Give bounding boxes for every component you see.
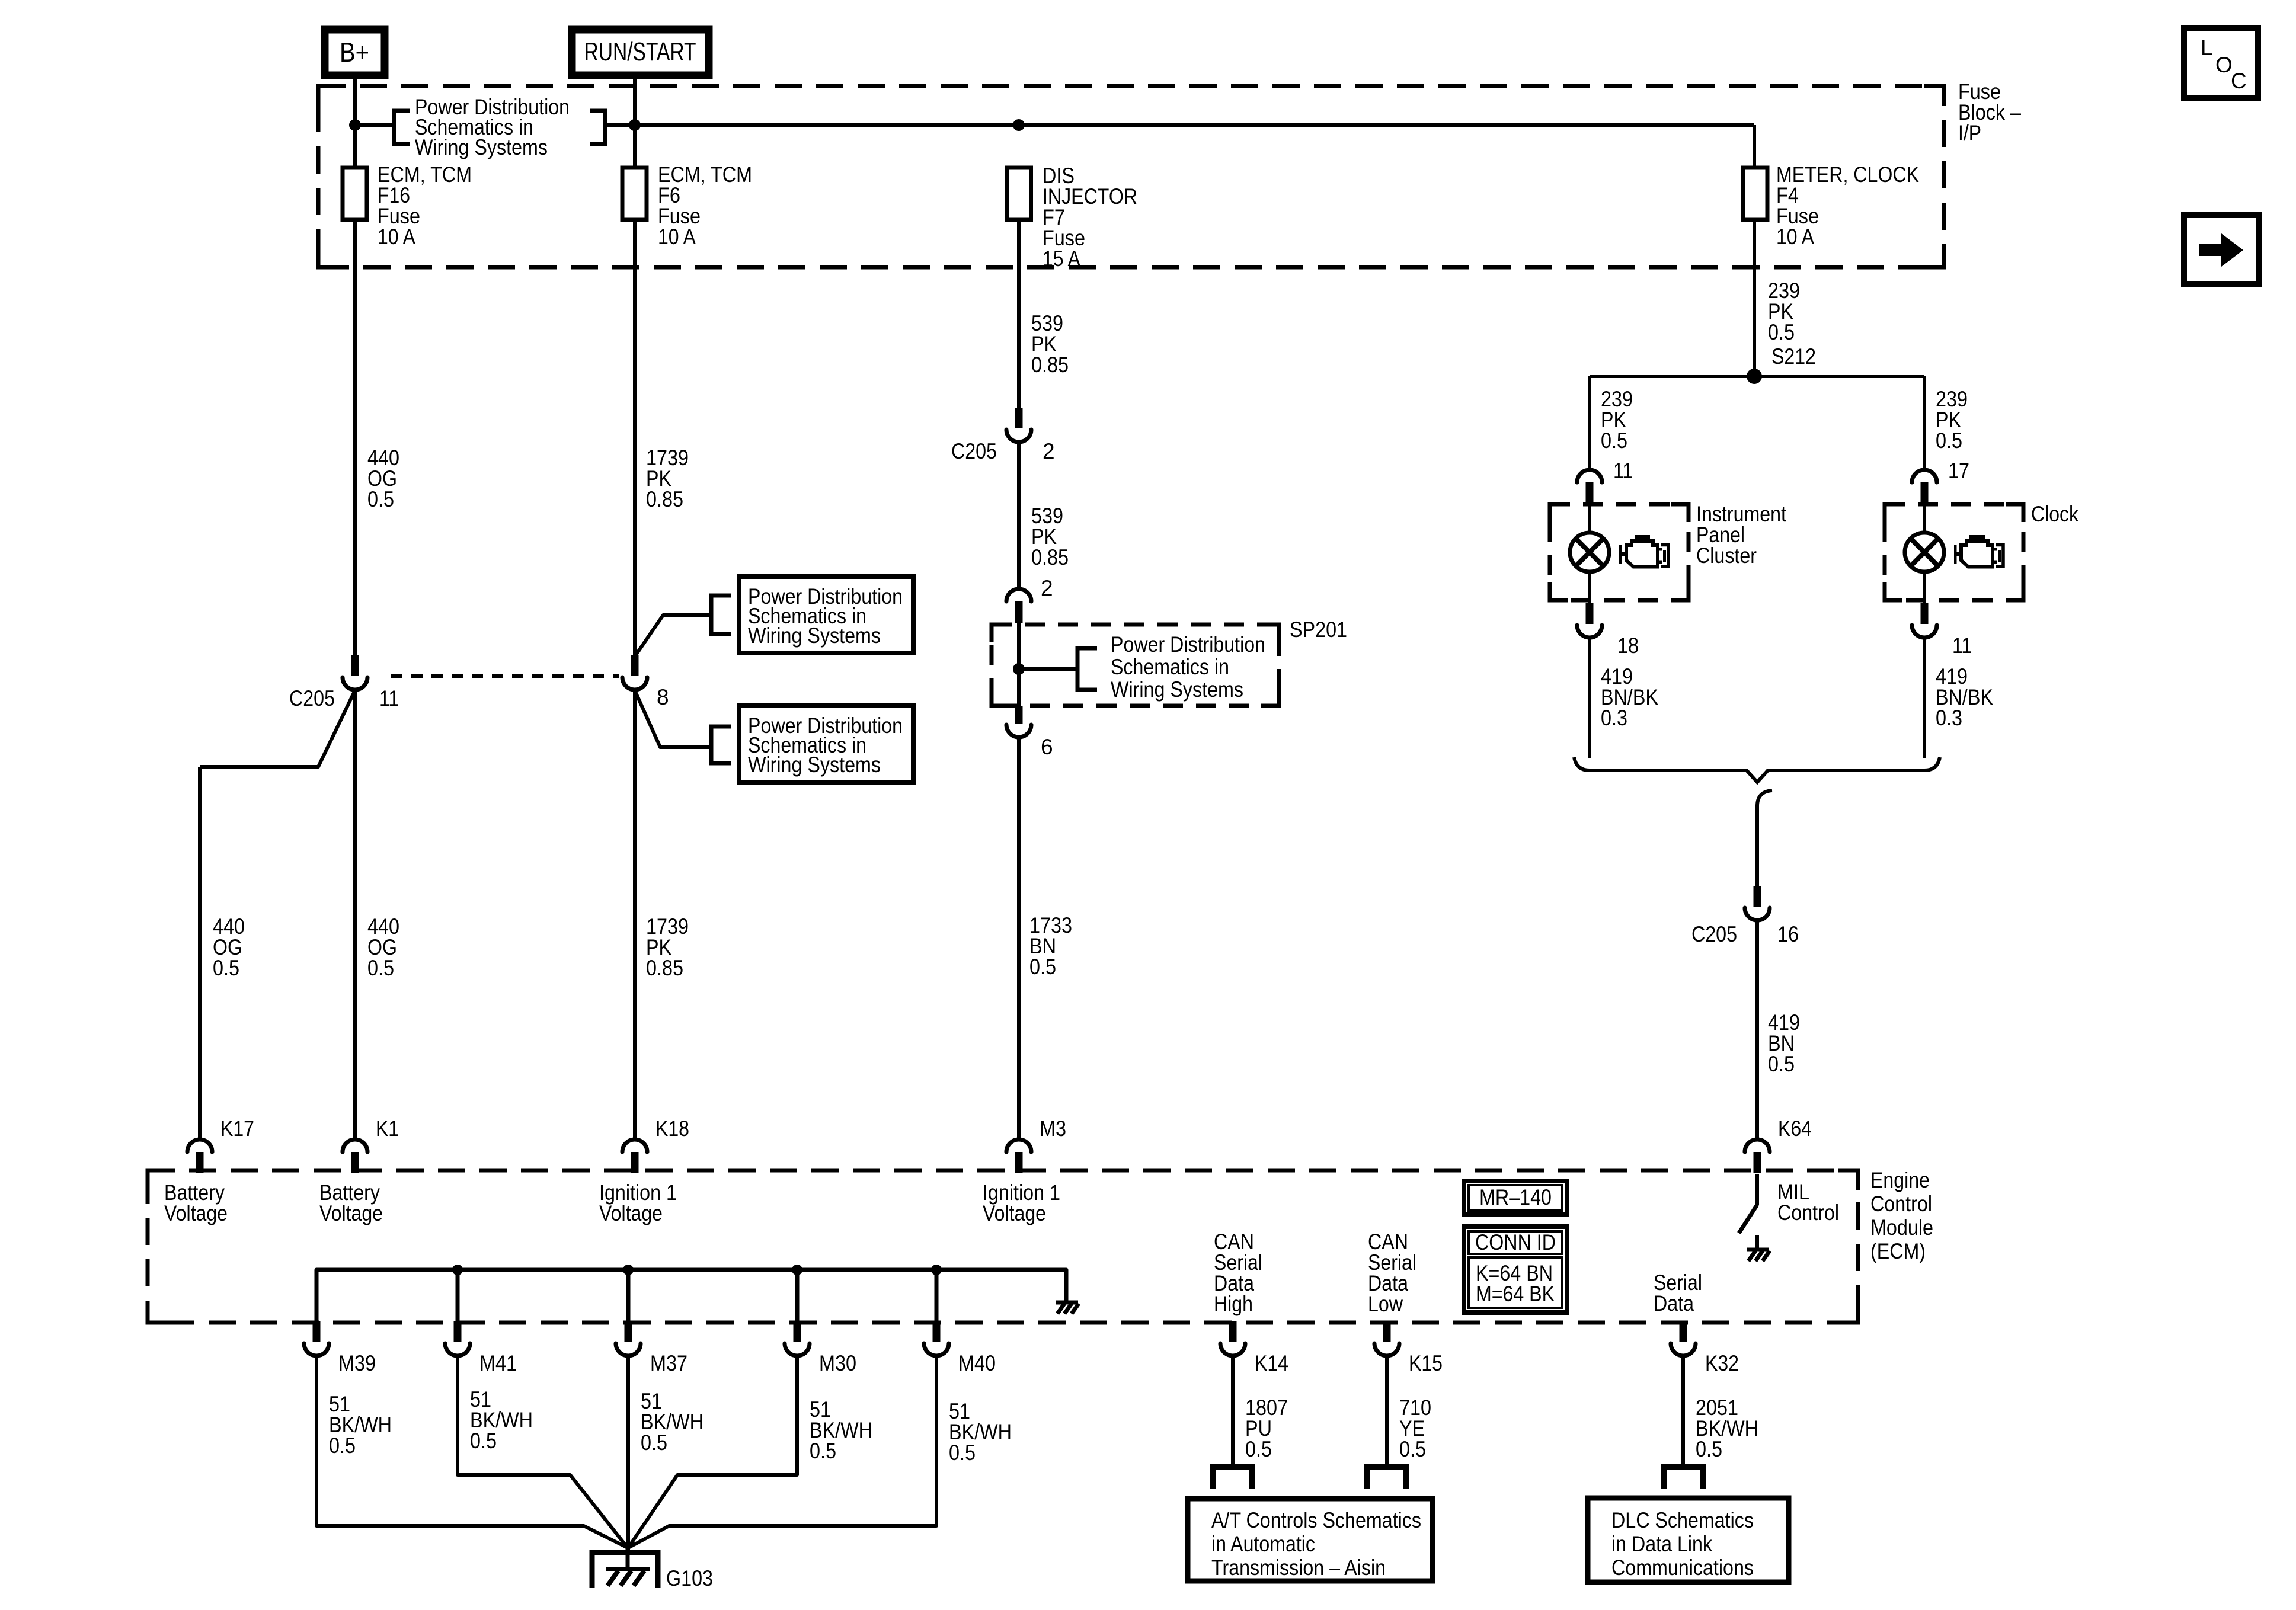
connector ECM pin M37 cup <box>616 1343 641 1356</box>
connector ECM pin K32 cup <box>1671 1343 1696 1356</box>
wire from lamp to cluster exit <box>1588 572 1591 605</box>
fuse F16 <box>343 168 367 220</box>
internal chassis ground (bus) <box>1056 1302 1079 1314</box>
wire 419 BN/BK left <box>1588 638 1591 758</box>
wire 419 BN to C205-16 <box>1755 805 1759 887</box>
ground G103 stem <box>626 1548 630 1569</box>
connector cluster exit pin 18 <box>1577 603 1602 638</box>
inner border of CONN ID header <box>1469 1231 1562 1254</box>
wire 239 PK right branch <box>1923 376 1926 469</box>
connector ECM pin K14 stub <box>1229 1321 1237 1342</box>
power feed box B+ <box>325 30 385 75</box>
connector ECM pin M40 cup <box>924 1343 949 1356</box>
connector ECM pin M41 cup <box>445 1343 470 1356</box>
connector ECM pin K1 <box>343 1140 367 1173</box>
wire 239 PK left branch <box>1588 376 1591 469</box>
svg-text:K14: K14 <box>1255 1351 1288 1375</box>
wire MIL switch to internal ground <box>1755 1235 1759 1248</box>
inner border of CONN ID value area <box>1469 1257 1562 1308</box>
svg-text:M40: M40 <box>958 1351 996 1375</box>
wire K64 to MIL switch <box>1755 1174 1759 1205</box>
svg-text:K32: K32 <box>1705 1351 1739 1375</box>
svg-text:11: 11 <box>1613 459 1633 483</box>
drop wire to M30 <box>795 1270 800 1323</box>
svg-text:M39: M39 <box>338 1351 376 1375</box>
connector ECM pin K18 <box>622 1140 647 1173</box>
junction dot at B+ column <box>349 119 361 131</box>
junction dot M40 <box>931 1265 942 1275</box>
svg-text:BatteryVoltage: BatteryVoltage <box>164 1180 228 1225</box>
svg-text:SP201: SP201 <box>1290 617 1347 642</box>
off-page connector below K15 <box>1367 1467 1406 1489</box>
connector SP201 exit pin 6 cup <box>1006 725 1031 737</box>
connector ECM pin K15 stub <box>1383 1321 1391 1342</box>
wire 440 OG down to K1 <box>353 690 357 1139</box>
wire branch from C205-11 to K17 column <box>200 690 355 767</box>
svg-text:11: 11 <box>379 686 399 710</box>
svg-text:C: C <box>2231 69 2247 93</box>
wire K32 down to off-page connector <box>1681 1356 1685 1467</box>
junction dot SP201 <box>1013 663 1025 675</box>
wire 1733 BN down to M3 <box>1017 737 1021 1139</box>
svg-text:C205: C205 <box>951 439 997 463</box>
inner border of MR-140 box <box>1469 1185 1562 1211</box>
connector ECM pin M41 stub <box>454 1321 462 1342</box>
svg-text:Clock: Clock <box>2031 502 2078 526</box>
right bracket of power distribution reference <box>590 111 605 144</box>
fuse F6 <box>622 168 647 220</box>
wire branch up to power distribution reference 1 <box>635 615 711 657</box>
connector clock exit pin 11 <box>1912 603 1937 638</box>
connector ECM pin K14 cup <box>1220 1343 1245 1356</box>
LOC legend box <box>2184 28 2258 98</box>
ground G103 box <box>592 1553 658 1588</box>
power feed box RUN/START <box>572 30 709 75</box>
fuse block - I/P dashed box <box>318 86 1944 267</box>
svg-text:K=64 BNM=64 BK: K=64 BNM=64 BK <box>1476 1261 1555 1306</box>
ground G103 chassis symbol <box>606 1569 650 1586</box>
wire 440 OG down to K17 <box>198 767 202 1139</box>
connector ECM pin M30 cup <box>785 1343 810 1356</box>
instrument panel cluster dashed box <box>1550 504 1689 600</box>
connector ECM pin K32 stub <box>1680 1321 1687 1342</box>
svg-text:O: O <box>2215 53 2233 77</box>
wire 539 PK from fuse F7 <box>1017 220 1021 409</box>
wire inside cluster to lamp <box>1588 504 1591 533</box>
connector clock pin 17 <box>1912 470 1937 504</box>
connector C205 pin 2 <box>1006 408 1031 442</box>
drop wire to M40 <box>935 1270 939 1323</box>
wire 1739 PK down to K18 <box>633 690 637 1139</box>
left bracket of power distribution reference <box>394 111 410 144</box>
svg-text:BatteryVoltage: BatteryVoltage <box>319 1180 383 1225</box>
bracket of power distribution reference 1 <box>711 596 731 634</box>
splice pack SP201 dashed box <box>992 625 1279 706</box>
svg-text:G103: G103 <box>666 1566 713 1590</box>
arrow navigation box <box>2184 215 2259 284</box>
svg-text:K15: K15 <box>1409 1351 1443 1375</box>
wire 1739 PK from fuse F6 to C205 <box>633 220 637 657</box>
svg-text:8: 8 <box>657 685 669 709</box>
connector ECM pin M37 stub <box>625 1321 632 1342</box>
connector instrument panel cluster pin 11 <box>1577 470 1602 504</box>
svg-text:11: 11 <box>1952 633 1972 658</box>
wire K15 down to off-page connector <box>1385 1356 1389 1467</box>
svg-text:C205: C205 <box>1691 922 1737 946</box>
svg-text:M37: M37 <box>650 1351 687 1375</box>
wire 440 OG from fuse F16 to C205 <box>353 220 357 657</box>
arrow symbol <box>2199 233 2243 267</box>
indicator lamp (clock) <box>1905 533 1944 572</box>
internal chassis ground (MIL) <box>1747 1250 1770 1261</box>
connector ECM pin K17 <box>187 1140 212 1173</box>
bracket of power distribution reference (SP201) <box>1077 648 1097 690</box>
connector ECM pin M39 cup <box>304 1343 329 1356</box>
wire M39 to G103 <box>316 1356 628 1548</box>
connector ECM pin K15 cup <box>1374 1343 1399 1356</box>
reference box Power Distribution (lower) <box>739 706 913 782</box>
wire RUN/START feed down to fuse F6 <box>633 75 637 168</box>
svg-text:MR–140: MR–140 <box>1479 1185 1552 1209</box>
wire M30 to G103 <box>628 1356 797 1548</box>
svg-text:B+: B+ <box>340 37 369 68</box>
svg-text:17: 17 <box>1948 459 1969 483</box>
svg-text:K17: K17 <box>220 1116 254 1141</box>
svg-text:2: 2 <box>1043 439 1055 463</box>
drop wire to M41 <box>456 1270 460 1323</box>
svg-text:RUN/START: RUN/START <box>584 37 696 66</box>
junction dot M37 <box>623 1265 634 1275</box>
svg-text:M41: M41 <box>479 1351 517 1375</box>
wire 239 PK from fuse F4 <box>1753 220 1756 376</box>
junction dot at RUN/START column <box>629 119 641 131</box>
wire inside clock to lamp <box>1923 504 1926 533</box>
reference box MR-140 <box>1464 1181 1567 1215</box>
connector C205 pin 16 <box>1745 886 1770 920</box>
wire from lamp to clock exit <box>1923 572 1926 605</box>
wire inside SP201 <box>1017 622 1021 706</box>
fuse F7 <box>1007 168 1031 220</box>
junction dot M30 <box>792 1265 802 1275</box>
dotted connector line C205 <box>391 674 619 678</box>
check engine icon (cluster) <box>1619 535 1668 567</box>
engine control module dashed box <box>148 1170 1858 1323</box>
svg-text:2: 2 <box>1041 576 1053 600</box>
clock dashed box <box>1885 504 2023 600</box>
wire bus corner down to fuse F4 <box>1753 125 1756 168</box>
wire M37 to G103 <box>626 1356 630 1553</box>
wire S212 horizontal <box>1590 375 1924 378</box>
svg-text:K64: K64 <box>1778 1116 1812 1141</box>
connector C205 pin 8 <box>622 655 647 690</box>
reference box A/T Controls Schematics <box>1188 1499 1432 1581</box>
svg-text:S212: S212 <box>1771 344 1816 369</box>
wire K14 down to off-page connector <box>1231 1356 1235 1467</box>
connector ECM pin M30 stub <box>794 1321 801 1342</box>
wire 539 PK from C205-2 to SP201 <box>1017 442 1021 587</box>
check engine icon (clock) <box>1954 535 2003 567</box>
junction dot M41 <box>452 1265 463 1275</box>
hook below brace <box>1757 790 1772 806</box>
wire B+ feed down to fuse F16 <box>353 75 357 168</box>
svg-text:16: 16 <box>1777 922 1799 946</box>
bracket of power distribution reference 2 <box>711 726 731 763</box>
connector SP201 exit pin 6 stub <box>1015 706 1023 724</box>
svg-text:C205: C205 <box>289 686 335 710</box>
svg-text:M30: M30 <box>819 1351 856 1375</box>
svg-text:K18: K18 <box>655 1116 689 1141</box>
ECM internal ground bus <box>316 1270 1066 1323</box>
connector ECM pin M3 <box>1006 1140 1031 1173</box>
svg-text:EngineControlModule(ECM): EngineControlModule(ECM) <box>1870 1168 1933 1263</box>
fuse F4 <box>1743 168 1767 220</box>
indicator lamp (cluster) <box>1570 533 1609 572</box>
splice S212 junction dot <box>1747 369 1762 384</box>
MIL switch blade <box>1739 1205 1757 1233</box>
connector SP201 entry pin 2 <box>1006 589 1031 623</box>
connector ECM pin K64 <box>1745 1140 1770 1173</box>
bus RUN/START horizontal feed <box>605 123 1754 127</box>
merge brace joining 419 BN/BK wires <box>1574 757 1940 782</box>
wire branch down to power distribution reference 2 <box>635 690 711 747</box>
svg-text:6: 6 <box>1041 735 1053 759</box>
junction dot at DIS INJECTOR column <box>1013 119 1025 131</box>
svg-text:M3: M3 <box>1040 1116 1066 1141</box>
svg-text:L: L <box>2201 36 2213 60</box>
svg-text:CONN ID: CONN ID <box>1475 1230 1556 1254</box>
bus feed from B+ junction to reference bracket <box>355 123 394 127</box>
wire SP201 to reference bracket <box>1019 667 1077 671</box>
wire M41 to G103 <box>458 1356 628 1548</box>
connector ECM pin M39 stub <box>313 1321 321 1342</box>
svg-text:K1: K1 <box>376 1116 399 1141</box>
reference box DLC Schematics <box>1588 1498 1789 1582</box>
connector ECM pin M40 stub <box>933 1321 941 1342</box>
off-page connector below K14 <box>1213 1467 1252 1489</box>
connector C205 pin 11 <box>343 655 367 690</box>
drop wire to M37 <box>626 1270 631 1323</box>
off-page connector below K32 <box>1664 1467 1703 1489</box>
wire 419 BN/BK right <box>1923 638 1926 758</box>
svg-text:18: 18 <box>1617 633 1639 658</box>
wire M40 to G103 <box>628 1356 936 1548</box>
connector id box <box>1464 1227 1567 1313</box>
wire 419 BN down to K64 <box>1755 920 1759 1139</box>
reference box Power Distribution (upper) <box>739 577 913 653</box>
